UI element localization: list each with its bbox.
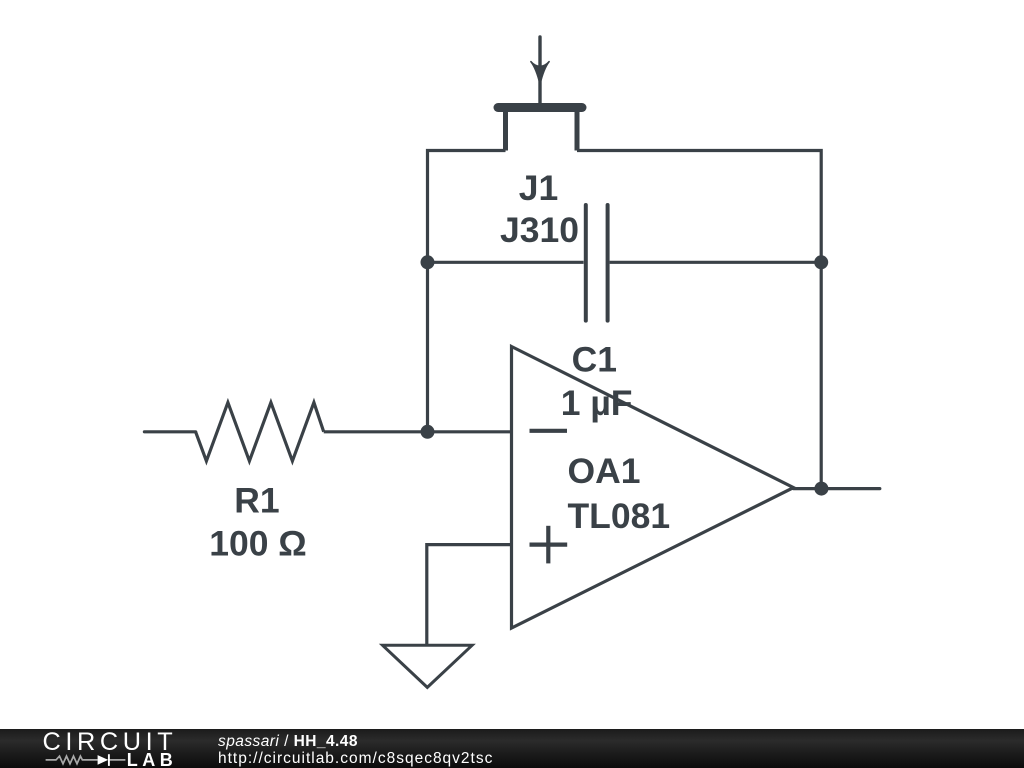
footer credit text [218,733,493,767]
drain leg [575,110,580,151]
resistor R1 [196,403,324,462]
channel bar [494,103,587,112]
wire: JFET drain to right rail, down to output node [577,151,821,489]
op-amp minus sign [530,429,568,433]
svg-text:TL081: TL081 [568,496,671,536]
wire: R1 to op-amp inverting input [324,430,512,433]
wire: left rail to C1 left plate [428,261,584,264]
node: left rail / C1 junction [421,255,435,269]
svg-text:J1: J1 [519,168,559,208]
op-amp OA1 triangle [512,347,794,629]
wire: C1 right plate to right rail [610,261,822,264]
svg-text:1 µF: 1 µF [561,383,633,423]
svg-text:http://circuitlab.com/c8sqec8q: http://circuitlab.com/c8sqec8qv2tsc [218,750,493,767]
node: output junction [814,482,828,496]
footer watermark bar [0,729,1024,768]
gate lead wire [538,37,541,104]
svg-text:LAB: LAB [127,750,178,768]
transistor J1 (JFET J310) [494,37,587,151]
svg-text:R1: R1 [234,480,279,520]
svg-text:C1: C1 [572,339,617,379]
op-amp plus sign [530,526,568,564]
wire: op-amp output [794,487,880,490]
capacitor C1 [586,205,608,321]
svg-text:J310: J310 [500,210,579,250]
svg-text:spassari / HH_4.48: spassari / HH_4.48 [218,733,358,750]
svg-text:100 Ω: 100 Ω [209,523,307,563]
gate arrowhead [531,62,549,84]
CircuitLab logo [43,728,178,768]
node: right rail / C1 junction [814,255,828,269]
wire: JFET source to left rail, down to inverting node [428,151,506,432]
source leg [503,110,508,151]
ground symbol [383,645,473,687]
node: inverting input junction [421,425,435,439]
svg-text:OA1: OA1 [568,451,641,491]
wire: non-inverting input to ground [427,545,512,646]
wire: input stub left of R1 [144,430,195,433]
